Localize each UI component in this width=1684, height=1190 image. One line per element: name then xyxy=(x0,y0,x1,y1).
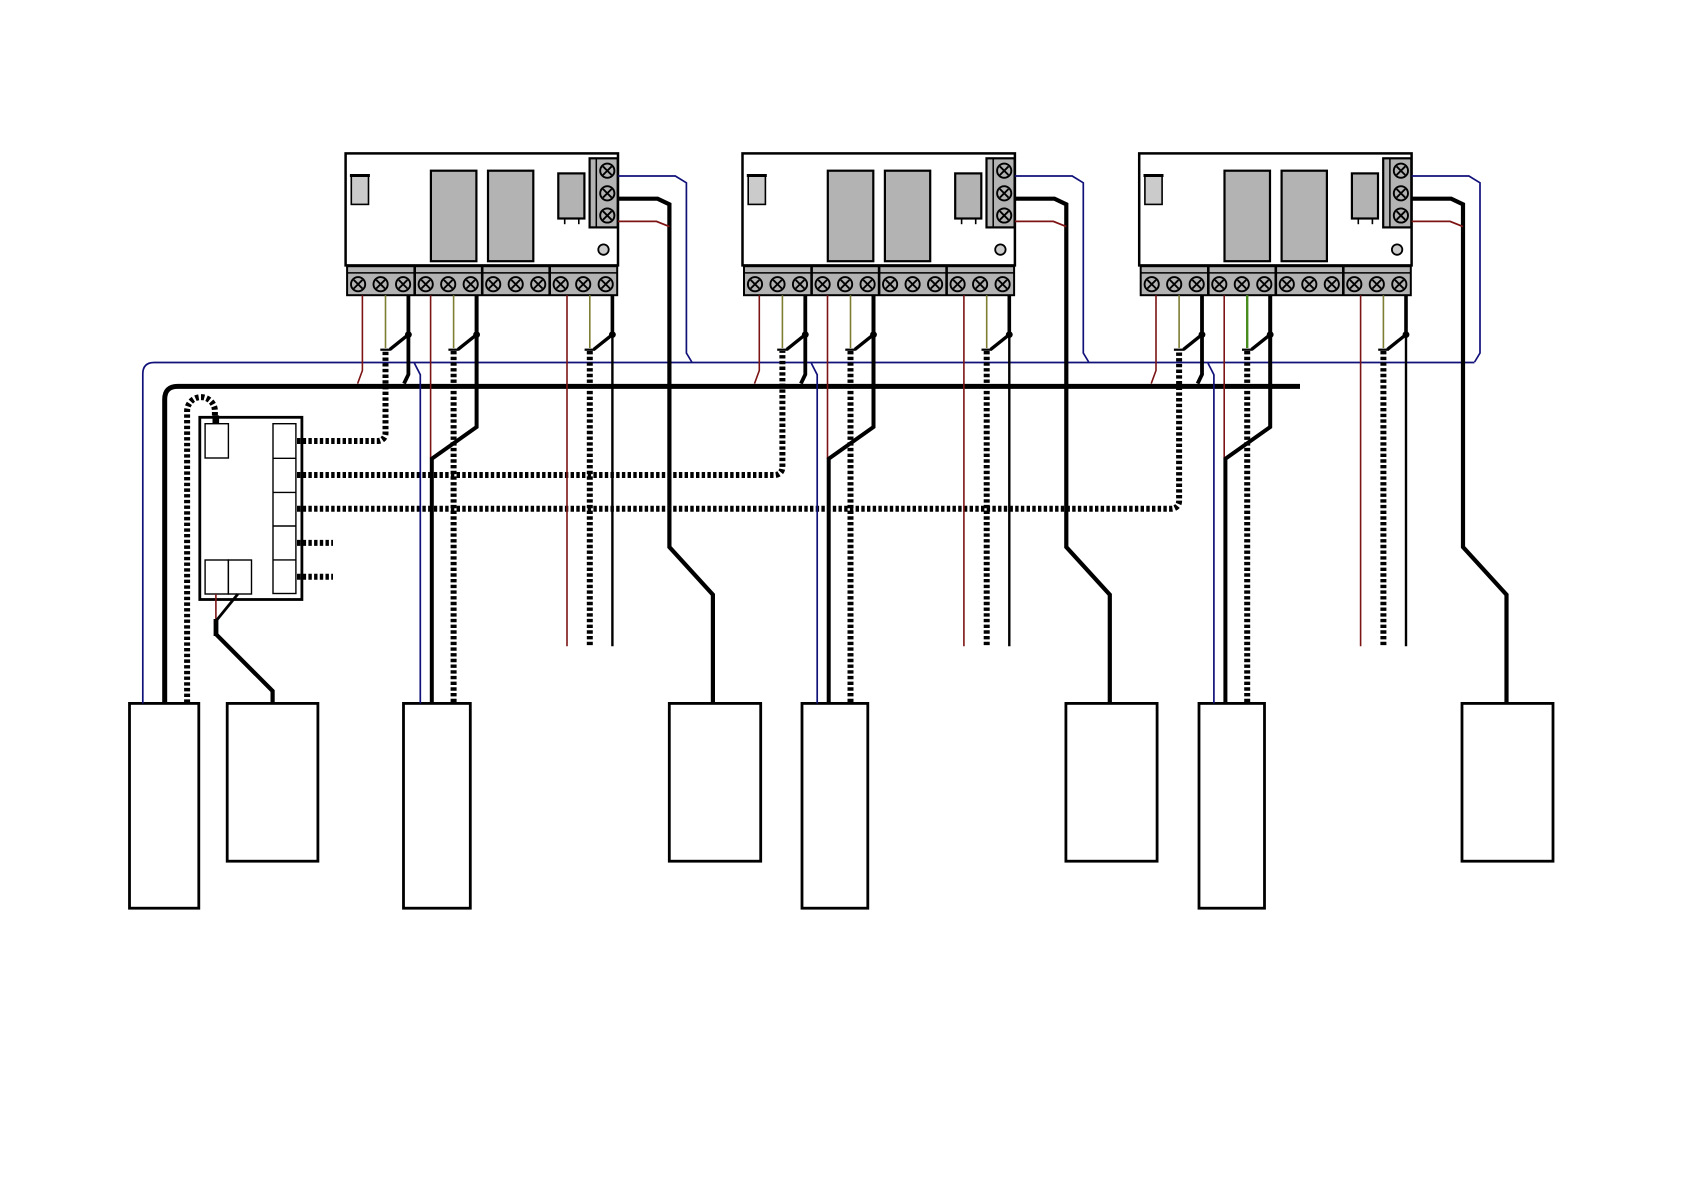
U1 group1 switch blade xyxy=(390,335,409,350)
dashed wire: U1 group4 (unconnected) xyxy=(587,351,593,647)
device box M4 xyxy=(1462,703,1553,861)
dashed data wire: controller port 1 to module U1 input xyxy=(297,351,386,441)
module U2 relay K2A xyxy=(828,171,874,262)
wire: U1 group1 red to power bus xyxy=(358,295,363,383)
module U2 bottom terminal strip J21-J24 (12 screws) xyxy=(744,266,1014,295)
controller sub-block C (bottom-left 2) xyxy=(228,560,251,594)
module U2 power terminal block J20 (pins 1-3) xyxy=(987,158,1015,227)
module U2 config jumper block xyxy=(747,176,767,205)
U3 group2 switch blade xyxy=(1252,335,1271,350)
wire: U3 power black to device box xyxy=(1412,199,1507,704)
module U1 bottom terminal strip J11-J14 (12 screws) xyxy=(347,266,617,295)
dashed wire: U3 group2 to device box xyxy=(1244,351,1250,703)
relay module U3 body xyxy=(1139,153,1411,265)
U1 group4 junction dot xyxy=(609,331,616,338)
wire: U2 group4 olive sense xyxy=(986,295,988,348)
U2 group1 switch blade xyxy=(787,335,806,350)
dashed data wire: controller port 2 to module U2 input xyxy=(297,351,782,475)
device box M1 xyxy=(227,703,318,861)
wire: U1 power black to device box xyxy=(618,199,713,704)
dashed data wire: controller port 3 to module U3 input xyxy=(297,351,1179,509)
U3 group2 junction dot xyxy=(1267,331,1274,338)
module U2 relay K2B xyxy=(885,171,930,262)
wire: U3 power red lead xyxy=(1412,221,1463,226)
U1 group4 switch contact tick xyxy=(585,349,595,351)
wire: U3 group4 black (unconnected) xyxy=(1404,295,1408,646)
U3 group4 switch contact tick xyxy=(1378,349,1388,351)
module U3 relay K3A xyxy=(1225,171,1271,262)
wire: U3 power blue to bus xyxy=(1412,176,1480,362)
U3 group2 switch contact tick xyxy=(1242,349,1252,351)
wire: U3 group1 olive sense xyxy=(1178,295,1180,348)
wire: U2 group2 red xyxy=(827,295,829,458)
controller output channel column (5 cells) xyxy=(273,424,296,594)
dashed wire: U2 group4 (unconnected) xyxy=(984,351,990,647)
wire: U2 power red lead xyxy=(1015,221,1066,226)
wire: U1 group1 black to power bus xyxy=(404,295,408,383)
module U1 relay K1B xyxy=(488,171,533,262)
module U3 config jumper block xyxy=(1144,176,1164,205)
relay module U1 body xyxy=(346,153,618,265)
relay module U2 body xyxy=(743,153,1015,265)
wire: U2 power black to device box xyxy=(1015,199,1110,704)
wire: U1 group1 olive sense xyxy=(385,295,387,348)
U2 group4 junction dot xyxy=(1006,331,1013,338)
U2 group2 switch blade xyxy=(855,335,874,350)
module U2 LED xyxy=(995,244,1005,254)
module U3 relay K3B xyxy=(1282,171,1327,262)
wire: U1 group2 olive sense xyxy=(453,295,455,348)
wire: U3 group1 red to power bus xyxy=(1151,295,1156,383)
wire: U3 group2 black feed to device box xyxy=(1225,295,1270,703)
U3 group4 switch blade xyxy=(1387,335,1406,350)
junction bar under controller xyxy=(214,619,219,636)
wire: U3 group4 olive sense xyxy=(1382,295,1384,348)
module U1 power terminal block J10 (pins 1-3) xyxy=(590,158,618,227)
U2 group1 junction dot xyxy=(802,331,809,338)
dashed stub: controller port 5 xyxy=(297,574,333,580)
U3 group1 switch blade xyxy=(1184,335,1203,350)
U2 group4 switch blade xyxy=(991,335,1010,350)
wire: U1 group4 olive sense xyxy=(589,295,591,348)
wire: U3 group1 black to power bus xyxy=(1198,295,1202,383)
U1 group1 switch contact tick xyxy=(380,349,390,351)
wire: U3 group4 red (unconnected) xyxy=(1360,295,1362,646)
wire: U1 group4 red (unconnected) xyxy=(566,295,568,646)
wire: U2 group1 red to power bus xyxy=(755,295,760,383)
wire: U2 group4 black (unconnected) xyxy=(1007,295,1011,646)
U1 group2 switch blade xyxy=(458,335,477,350)
module U3 bottom terminal strip J31-J34 (12 screws) xyxy=(1141,266,1411,295)
U1 group2 junction dot xyxy=(473,331,480,338)
U1 group1 junction dot xyxy=(405,331,412,338)
dashed wire: U3 group4 (unconnected) xyxy=(1380,351,1386,647)
device box M2 xyxy=(669,703,760,861)
wire: blue bus tap to device box near U2 xyxy=(811,363,817,703)
U1 group4 switch blade xyxy=(594,335,613,350)
wire: blue bus tap to device box near U3 xyxy=(1208,363,1214,703)
wire: controller black lead diagonal xyxy=(216,594,238,621)
wire: U2 power blue to bus xyxy=(1015,176,1089,362)
module U1 LED xyxy=(598,244,608,254)
wire: U3 group2 green sense xyxy=(1246,295,1248,348)
U3 group1 junction dot xyxy=(1199,331,1206,338)
device box LS4 xyxy=(1199,703,1265,908)
U3 group4 junction dot xyxy=(1403,331,1410,338)
U1 group2 switch contact tick xyxy=(448,349,458,351)
wire: U1 power blue to bus xyxy=(618,176,692,362)
wire: U3 group2 red xyxy=(1223,295,1225,458)
module U1 relay K1A xyxy=(431,171,477,262)
wire: blue bus tap to device box near U1 xyxy=(414,363,420,703)
U2 group4 switch contact tick xyxy=(982,349,992,351)
device box LS3 xyxy=(802,703,868,908)
dashed wire: U1 group2 to device box xyxy=(451,351,457,703)
module U1 regulator component xyxy=(558,173,584,224)
wire: thick feed controller to device box M1 xyxy=(216,634,273,703)
wire: U1 group2 red xyxy=(430,295,432,458)
dashed wire: U2 group2 to device box xyxy=(848,351,854,703)
U2 group2 junction dot xyxy=(870,331,877,338)
module U3 regulator component xyxy=(1352,173,1378,224)
blue common bus wire (navy) xyxy=(143,363,1475,704)
dashed data wire: controller to device box LS1 (with top arc) xyxy=(187,397,215,703)
U3 group1 switch contact tick xyxy=(1174,349,1184,351)
wire: controller red lead to junction xyxy=(215,594,217,621)
wire: U1 group2 black feed to device box xyxy=(432,295,477,703)
wire: U2 group1 black to power bus xyxy=(801,295,805,383)
U2 group1 switch contact tick xyxy=(777,349,787,351)
black power bus (thick) xyxy=(165,386,1300,703)
wire: U2 group4 red (unconnected) xyxy=(963,295,965,646)
device box LS1 xyxy=(130,703,199,908)
module U3 power terminal block J30 (pins 1-3) xyxy=(1383,158,1411,227)
dashed stub: controller port 4 xyxy=(297,540,333,546)
device box M3 xyxy=(1066,703,1157,861)
module U3 LED xyxy=(1392,244,1402,254)
device box LS2 xyxy=(404,703,471,908)
wire: U2 group1 olive sense xyxy=(781,295,783,348)
wire: U1 group4 black (unconnected) xyxy=(611,295,615,646)
wire: U1 power red lead xyxy=(618,221,669,226)
controller sub-block B (bottom-left 1) xyxy=(205,560,228,594)
controller input connector stub xyxy=(213,415,220,424)
controller sub-block A (top-left) xyxy=(205,424,228,458)
wire: U2 group2 black feed to device box xyxy=(829,295,874,703)
controller box body xyxy=(200,417,302,599)
U2 group2 switch contact tick xyxy=(845,349,855,351)
module U2 regulator component xyxy=(955,173,981,224)
module U1 config jumper block xyxy=(350,176,370,205)
wire: U2 group2 olive sense xyxy=(850,295,852,348)
